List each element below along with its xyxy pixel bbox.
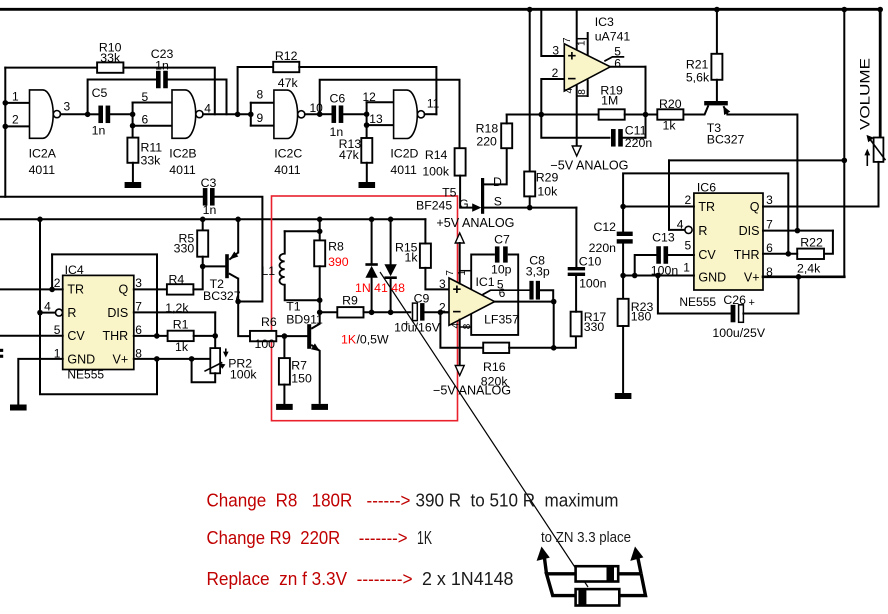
svg-text:1n: 1n [92, 124, 106, 138]
svg-text:12: 12 [363, 90, 377, 104]
wire IC2D pin12 [367, 101, 394, 103]
power +5V arrow IC1 [455, 233, 464, 243]
svg-text:CV: CV [67, 329, 85, 343]
wire C12 top [622, 207, 624, 233]
wire R5 bottom [202, 257, 204, 267]
wire R9 to C9 [364, 311, 411, 313]
svg-text:5: 5 [54, 323, 61, 337]
svg-text:330: 330 [174, 242, 195, 256]
svg-text:Q: Q [118, 283, 128, 297]
node output down [551, 345, 557, 351]
wire IC2C output [305, 113, 320, 115]
wire R11 to ground [132, 163, 134, 182]
svg-text:R18: R18 [476, 122, 499, 136]
pin IC3 pin1 tick [577, 38, 588, 40]
pin IC1 pin5 to C8 [483, 290, 529, 294]
svg-text:1M: 1M [601, 94, 618, 108]
ground R7 [276, 404, 293, 410]
svg-text:Replace zn f 3.3V -------->: Replace zn f 3.3V --------> [207, 569, 413, 589]
node rail R21 [714, 7, 720, 13]
wire IC2D output [425, 113, 437, 115]
svg-text:THR: THR [102, 329, 128, 343]
svg-text:R: R [67, 306, 76, 320]
wire R6 to T1 base [276, 335, 307, 337]
svg-text:33k: 33k [100, 51, 121, 65]
wire C6 right [342, 113, 367, 115]
node R pin [37, 310, 43, 316]
node R12 tap [235, 112, 241, 118]
node TR [49, 287, 55, 293]
transistor T5 channel [481, 178, 484, 214]
svg-text:Q: Q [750, 200, 760, 214]
svg-text:DIS: DIS [107, 306, 128, 320]
wire IC1 output [495, 301, 554, 303]
wire IC3 pin3 to rail [541, 10, 564, 57]
node C3 tap [235, 299, 241, 305]
wire IC2B output [203, 113, 251, 115]
svg-text:47k: 47k [339, 148, 360, 162]
wire C8 right [540, 290, 553, 301]
capacitor C12 [617, 232, 633, 236]
wire IC2A output [61, 113, 88, 115]
wire R12 left [238, 67, 274, 114]
svg-text:BF245: BF245 [416, 199, 452, 213]
wire T2 collector down [238, 279, 250, 337]
gate IC2C [274, 90, 298, 138]
svg-text:Change R8 180R ------>: Change R8 180R ------> [207, 491, 411, 511]
wire R18 top [506, 115, 508, 124]
wire IC1 pin4 [459, 320, 461, 366]
svg-text:8: 8 [135, 346, 142, 360]
capacitor C26 100u/25V [731, 305, 736, 323]
svg-text:BC327: BC327 [707, 133, 745, 147]
svg-text:4011: 4011 [274, 163, 301, 177]
svg-text:R29: R29 [536, 171, 559, 185]
wire IC3 pin2 [541, 79, 564, 115]
wire IC3 pin7 [576, 10, 578, 49]
gate IC2B [172, 90, 196, 138]
resistor R7 [279, 358, 290, 385]
svg-text:4011: 4011 [169, 163, 196, 177]
svg-text:1N 41 48: 1N 41 48 [355, 281, 405, 295]
svg-text:11: 11 [427, 97, 440, 111]
wire to C5 [88, 113, 99, 115]
junction [3, 124, 9, 130]
resistor R8 [314, 240, 325, 266]
svg-text:NE555: NE555 [67, 368, 104, 382]
svg-text:R11: R11 [141, 141, 163, 155]
node PR2 bottom [189, 356, 195, 362]
svg-text:330: 330 [584, 320, 605, 334]
svg-text:2: 2 [552, 66, 559, 80]
svg-text:R1: R1 [173, 318, 189, 332]
wire IC6 TR pin2 [623, 206, 694, 208]
svg-text:1n: 1n [155, 59, 169, 73]
wire IC4 R pin4 [40, 312, 56, 314]
wire IC2C pin9 [251, 125, 274, 127]
wire IC2B pin5 [133, 102, 172, 104]
node R1 right [212, 333, 218, 339]
svg-text:100u/25V: 100u/25V [712, 326, 765, 340]
wire IC2D pin13 [367, 124, 394, 126]
svg-text:C5: C5 [92, 86, 108, 100]
svg-text:10k: 10k [537, 185, 558, 199]
svg-text:C26: C26 [723, 293, 746, 307]
svg-text:2: 2 [12, 113, 19, 127]
pin IC4 pin4 bubble [56, 309, 63, 316]
resistor R21 [711, 54, 722, 80]
svg-text:7: 7 [766, 217, 773, 231]
node C26 tap [655, 273, 661, 279]
node IC2D input [364, 111, 370, 117]
svg-text:1K: 1K [417, 528, 432, 548]
svg-text:2: 2 [54, 276, 61, 290]
node rail R8 [317, 217, 323, 223]
wire IC2A feedback vertical [4, 68, 6, 197]
node IC2B input [130, 112, 136, 118]
node IC3 out [643, 112, 649, 118]
svg-text:IC2B: IC2B [169, 147, 196, 161]
wire C23 right [167, 80, 226, 115]
capacitor C8 [529, 281, 533, 300]
node rail R29 [527, 7, 533, 13]
wire to C6 [320, 113, 333, 115]
node rail D2 [388, 217, 394, 223]
potentiometer VOLUME [874, 138, 884, 162]
wire C9 to IC1 pin2 [425, 311, 450, 313]
svg-text:4: 4 [44, 300, 51, 314]
resistor R5 [197, 230, 208, 256]
wire C26 left [658, 276, 731, 314]
node T2 base [200, 264, 206, 270]
wire R10 left [5, 67, 97, 69]
wire PR2 bottom loop [192, 359, 216, 382]
node C12 top [620, 204, 626, 210]
ground R23 [615, 393, 632, 399]
diode D2 1N4148 [384, 264, 396, 276]
svg-text:33k: 33k [141, 154, 162, 168]
node IC2C out [317, 111, 323, 117]
svg-text:10: 10 [310, 101, 324, 115]
svg-text:+5V ANALOG: +5V ANALOG [436, 216, 514, 230]
node rail R4011 [37, 217, 43, 223]
svg-text:TR: TR [67, 283, 84, 297]
ground IC4 [10, 405, 27, 411]
wire C3 right to T2 collector [214, 197, 263, 302]
resistor R17 [571, 312, 582, 337]
wire IC2C input vertical [250, 103, 252, 126]
wire IC2C out to R14 [320, 80, 460, 148]
gate IC2D [394, 90, 418, 138]
wire L1 upper [284, 231, 286, 253]
svg-text:DIS: DIS [739, 224, 760, 238]
svg-text:R4: R4 [169, 273, 185, 287]
svg-text:8: 8 [462, 323, 473, 329]
wire C5 right [110, 113, 133, 115]
power -5V arrow IC3 [572, 146, 581, 156]
wire IC4 GND pin1 [18, 359, 62, 405]
wire IC6 GND pin1 [623, 275, 694, 277]
wire IC4 TR-THR loop [52, 254, 157, 336]
wire IC4 supply loop [40, 219, 157, 394]
wire loop to TR [51, 254, 53, 289]
IC U IC4 body [63, 275, 134, 369]
svg-text:2,4k: 2,4k [797, 262, 821, 276]
svg-text:6: 6 [766, 241, 773, 255]
svg-text:1: 1 [577, 40, 588, 46]
wire IC6 THR pin6 [763, 253, 797, 255]
svg-text:1: 1 [683, 261, 690, 275]
wire IC4 DIS pin7 [134, 311, 215, 313]
wire C12 to R23 [622, 242, 624, 326]
svg-text:GND: GND [698, 270, 726, 284]
pin IC3 pin8 tick [577, 95, 588, 97]
svg-text:150: 150 [291, 372, 312, 386]
svg-text:+: + [568, 48, 577, 65]
node IC1 out [551, 299, 557, 305]
potentiometer PR2 [210, 348, 220, 373]
svg-text:C3: C3 [201, 176, 217, 190]
wire R5 top [202, 219, 204, 230]
svg-text:220n: 220n [589, 241, 617, 255]
wire IC2B pin6 [133, 125, 172, 127]
svg-text:8: 8 [577, 89, 588, 95]
svg-text:7: 7 [445, 270, 456, 276]
wire R15 to IC1 pin3 [425, 268, 449, 290]
svg-text:IC2A: IC2A [29, 147, 57, 161]
wire VOLUME to Q [878, 162, 880, 207]
svg-text:Change R9 220R ------->: Change R9 220R -------> [207, 528, 408, 548]
wire IC6 CV pin5 [667, 254, 694, 256]
svg-text:3: 3 [552, 44, 559, 58]
svg-text:13: 13 [369, 112, 383, 126]
svg-text:1k: 1k [663, 119, 677, 133]
svg-text:1k: 1k [175, 340, 189, 354]
svg-text:1n: 1n [203, 203, 217, 217]
svg-text:/0,5W: /0,5W [357, 333, 390, 347]
svg-text:5: 5 [142, 90, 149, 104]
svg-text:1k: 1k [405, 251, 419, 265]
node IC6 gnd net [620, 273, 626, 279]
inductor L1 [280, 254, 285, 285]
capacitor C10 [568, 267, 585, 270]
wire IC2D input vertical [366, 102, 368, 138]
wire T2 emitter to rail [237, 219, 239, 252]
annotation red box [272, 196, 458, 421]
wire R10 right to IC2B output [123, 68, 214, 115]
wire D1 top [371, 219, 373, 264]
svg-text:220n: 220n [625, 136, 653, 150]
wire C26 right to V+ [743, 277, 798, 314]
svg-text:4: 4 [564, 88, 575, 94]
svg-text:6: 6 [142, 113, 149, 127]
node rail D1 [369, 217, 375, 223]
wire IC6 R pin loop [669, 160, 685, 230]
wire DIS to PR2 [214, 312, 216, 348]
svg-text:+: + [453, 281, 462, 298]
svg-text:2 x 1N4148: 2 x 1N4148 [422, 569, 514, 589]
svg-text:R8: R8 [328, 240, 344, 254]
node IC2A out [85, 112, 91, 118]
capacitor C9 10u/16V [413, 303, 418, 321]
svg-text:V+: V+ [113, 353, 129, 367]
resistor R1 [168, 331, 194, 341]
svg-text:5: 5 [685, 238, 692, 252]
wire DIS to R22 [824, 231, 833, 254]
svg-text:6: 6 [135, 323, 142, 337]
resistor R12 [273, 62, 299, 72]
svg-text:2: 2 [439, 301, 446, 315]
svg-text:−: − [453, 304, 462, 321]
wire output to R16 line [553, 302, 555, 348]
wire R16 right to R17 [509, 336, 576, 348]
wire T5 source line [483, 207, 576, 209]
wire IC4 TR pin2 [0, 288, 63, 290]
svg-text:IC6: IC6 [697, 181, 716, 195]
wire T2 base [203, 265, 226, 267]
svg-text:R: R [698, 224, 707, 238]
svg-text:C6: C6 [330, 92, 346, 106]
wire R12 right to IC2D output [299, 67, 436, 114]
svg-text:R12: R12 [275, 49, 298, 63]
capacitor C7 [495, 246, 500, 262]
wire L1 bottom [285, 285, 320, 300]
wire IC3 pin4 [576, 86, 578, 148]
svg-text:100n: 100n [579, 277, 607, 291]
annotation diode wires [547, 574, 646, 596]
node rail IC6 [842, 7, 848, 13]
wire IC2A pin1 [5, 102, 29, 104]
resistor R29 [524, 172, 535, 197]
svg-text:R22: R22 [800, 236, 823, 250]
node IC1 inverting [438, 310, 444, 316]
svg-text:4: 4 [450, 323, 461, 329]
wire IC6 TR-THR loop [623, 173, 788, 253]
resistor R6 [250, 331, 276, 341]
wire to C23 [88, 80, 157, 115]
node C26 V+ [796, 274, 802, 280]
svg-text:4011: 4011 [29, 163, 56, 177]
pin IC3 pin5 [605, 57, 623, 61]
svg-text:−: − [568, 71, 577, 88]
wire C11 right to output [622, 67, 645, 138]
wire R29 bottom [529, 196, 531, 207]
wire T3 emitter to IC6 DIS [727, 115, 797, 231]
wire IC6 Q pin3 [763, 206, 879, 208]
svg-text:V+: V+ [744, 270, 760, 284]
wire IC6 V+ pin8 [763, 275, 844, 278]
wire D2 top [390, 219, 392, 264]
svg-text:10u/16V: 10u/16V [394, 321, 441, 335]
node T1 collector [317, 310, 323, 316]
junction [130, 123, 136, 129]
wire R13 to ground [366, 163, 368, 182]
svg-text:GND: GND [67, 353, 95, 367]
wire T5 drain to R18 [483, 148, 507, 184]
wire IC1 pin2 stub [440, 311, 449, 313]
IC U IC6 body [694, 193, 763, 290]
svg-text:1: 1 [457, 270, 468, 276]
svg-text:47k: 47k [278, 76, 299, 90]
power -5V arrow IC1 [455, 366, 464, 376]
svg-text:7: 7 [562, 37, 573, 43]
svg-text:IC2C: IC2C [274, 147, 302, 161]
svg-text:1K: 1K [341, 333, 357, 347]
ground R13 [359, 182, 376, 188]
annotation arrow left [544, 556, 546, 574]
transistor T1 BD911 [307, 324, 311, 349]
wire C13 left [635, 255, 658, 276]
wire R8 bottom [319, 266, 321, 312]
svg-text:BD911: BD911 [286, 313, 323, 327]
resistor R4 [167, 284, 194, 294]
pin IC1 pin8 tick [460, 326, 472, 328]
svg-text:5,6k: 5,6k [686, 71, 710, 85]
svg-text:VOLUME: VOLUME [858, 58, 873, 130]
wire source to C10 [575, 208, 577, 268]
wire D2 bottom [390, 279, 392, 312]
resistor R22 [797, 249, 824, 259]
node rail VOLUME [877, 7, 883, 13]
svg-text:820k: 820k [481, 375, 509, 389]
capacitor (edge clipped) [0, 349, 3, 352]
capacitor C13 [656, 246, 661, 264]
node R7 top [282, 333, 288, 339]
svg-text:TR: TR [698, 200, 715, 214]
svg-text:−5V ANALOG: −5V ANALOG [550, 159, 628, 173]
gate IC2A [30, 90, 54, 138]
svg-text:C9: C9 [414, 291, 430, 305]
node IC3 inv [539, 112, 545, 118]
wire R7 bottom [283, 385, 285, 404]
svg-text:IC1: IC1 [476, 275, 495, 289]
wire rail to R29 [529, 10, 531, 172]
svg-text:BC327: BC327 [203, 289, 241, 303]
wire T1 collector node to R9 [320, 311, 338, 313]
svg-text:CV: CV [698, 248, 716, 262]
resistor R10 [97, 62, 123, 72]
node R8 top [317, 229, 323, 235]
capacitor C11 [611, 129, 616, 147]
op-amp IC3 uA741 [564, 44, 610, 91]
svg-text:T5: T5 [442, 186, 457, 200]
wire R21 top [716, 10, 718, 54]
pin IC6 pin4 bubble [685, 226, 692, 233]
transistor T3 BC327 [704, 101, 728, 105]
resistor R18 [501, 123, 512, 148]
svg-text:4: 4 [204, 102, 211, 116]
svg-text:1,2k: 1,2k [165, 301, 189, 315]
resistor R19 [599, 109, 625, 119]
ground R11 [125, 182, 142, 188]
wire R7 top [283, 336, 285, 358]
svg-text:R7: R7 [291, 359, 307, 373]
annotation leader line [380, 272, 588, 587]
svg-text:390: 390 [328, 255, 349, 269]
wire IC2C pin8 [251, 102, 274, 104]
node rail loop [842, 158, 848, 164]
svg-text:THR: THR [734, 248, 760, 262]
svg-text:8: 8 [766, 265, 773, 279]
node rail R5 [200, 217, 206, 223]
wire R17 to C10 [575, 276, 577, 312]
wire IC4 CV pin5 [0, 335, 63, 337]
wire L1 top [285, 230, 320, 232]
wire IC3 output [610, 66, 645, 68]
svg-text:IC4: IC4 [65, 263, 84, 277]
svg-text:4: 4 [677, 217, 684, 231]
svg-text:C13: C13 [652, 231, 675, 245]
